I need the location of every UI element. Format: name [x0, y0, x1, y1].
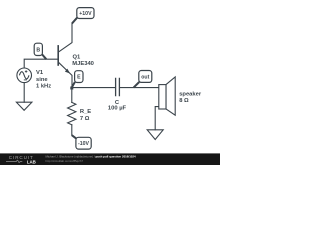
svg-text:R_E: R_E: [80, 109, 91, 115]
svg-text:1 kHz: 1 kHz: [36, 84, 51, 90]
svg-text:sine: sine: [36, 77, 48, 83]
svg-text:8 Ω: 8 Ω: [179, 98, 189, 104]
svg-text:B: B: [36, 47, 40, 53]
svg-text:LAB: LAB: [27, 159, 36, 164]
svg-text:out: out: [141, 75, 149, 81]
svg-text:+10V: +10V: [79, 11, 92, 17]
svg-text:Q1: Q1: [73, 55, 82, 61]
svg-text:Michael J. Blackstone (mjblack: Michael J. Blackstone (mjblackstone) / p…: [46, 154, 137, 158]
svg-text:E: E: [77, 75, 81, 81]
svg-text:100 µF: 100 µF: [108, 106, 127, 112]
svg-text:-10V: -10V: [78, 141, 89, 147]
svg-text:http://circuitlab.com/c/85qzh7: http://circuitlab.com/c/85qzh7: [46, 159, 84, 163]
svg-text:V1: V1: [36, 70, 44, 76]
svg-text:speaker: speaker: [179, 92, 202, 98]
svg-text:7 Ω: 7 Ω: [80, 116, 90, 122]
svg-text:MJE340: MJE340: [72, 61, 94, 67]
